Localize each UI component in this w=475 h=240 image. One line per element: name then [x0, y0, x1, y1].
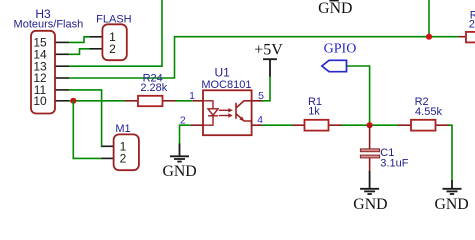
optocoupler U1 box [203, 90, 252, 135]
svg-text:5: 5 [258, 90, 264, 102]
wire: H3 pin13 up to top edge [69, 0, 163, 66]
U1 internal phototransistor [236, 101, 252, 125]
wire: H3 pin15 to FLASH pin1 [69, 37, 90, 43]
resistor R3 pin (partial at right edge) [459, 36, 467, 38]
capacitor C1 pin bottom [369, 158, 371, 172]
resistor R3 (partial) [466, 32, 475, 43]
svg-text:1: 1 [189, 90, 195, 102]
wire: H3 pin12 up and across to R3 [69, 37, 459, 78]
capacitor C1 pin top [369, 125, 371, 149]
svg-text:MOC8101: MOC8101 [201, 79, 251, 91]
op-to pins U1 stubs [191, 101, 262, 125]
svg-text:2.2: 2.2 [469, 19, 475, 31]
ground symbol under U1 pin2 [170, 144, 189, 162]
wire: U1 pin4 to R1 [262, 124, 292, 126]
wire: GPIO flag to junction vertical [347, 66, 370, 125]
junction: long net / vertical [426, 34, 432, 40]
svg-text:GND: GND [353, 196, 387, 213]
capacitor C1 plates [360, 149, 379, 152]
wire: R2 to right GND drop [448, 125, 452, 181]
svg-text:2: 2 [109, 42, 116, 56]
resistor R2 [411, 120, 436, 131]
connector FLASH pin stubs [90, 37, 103, 49]
svg-text:+5V: +5V [254, 41, 283, 58]
svg-text:M1: M1 [115, 123, 130, 135]
wire: junction to R2 [370, 124, 399, 126]
resistor R1 pins [292, 124, 342, 126]
svg-text:4: 4 [257, 114, 263, 126]
wire: U1 pin2 to GND [180, 125, 191, 144]
svg-text:2: 2 [120, 152, 127, 166]
svg-text:FLASH: FLASH [96, 14, 132, 26]
U1 internal coupling arrows [219, 108, 233, 118]
ground symbol under C1 [360, 171, 379, 194]
resistor R24 pins [125, 100, 176, 102]
svg-text:2: 2 [180, 114, 186, 126]
svg-text:4.55k: 4.55k [415, 106, 442, 118]
ground symbol under R2 [443, 180, 462, 194]
wire: H3 pin10 to R24 [69, 100, 126, 102]
wire: pin10 branch down to M1 pin2 [73, 101, 102, 159]
resistor R1 [305, 120, 329, 131]
junction: R1/R2/C1/GPIO node [367, 122, 373, 128]
power +5V symbol [263, 59, 277, 76]
svg-text:GND: GND [318, 0, 352, 17]
svg-text:U1: U1 [215, 65, 231, 79]
connector M1 pin stubs [102, 146, 114, 158]
svg-text:Moteurs/Flash: Moteurs/Flash [14, 19, 84, 31]
resistor R24 [138, 96, 163, 106]
wire: R24 to U1 pin1 [175, 100, 193, 102]
wire: vertical drop from top edge to junction on long net [428, 0, 430, 37]
svg-text:2.28k: 2.28k [140, 82, 167, 94]
connector FLASH [102, 24, 126, 60]
svg-text:10: 10 [33, 94, 47, 108]
connector M1 [114, 134, 139, 170]
ground symbol top (inverted, cut off) [329, 0, 339, 1]
connector H3 [31, 31, 55, 114]
resistor R2 pins [398, 124, 449, 126]
svg-text:GND: GND [434, 196, 468, 213]
wire: U1 pin5 to +5V [258, 76, 270, 101]
connector H3 pin stubs [55, 42, 69, 100]
svg-text:GND: GND [162, 163, 196, 180]
U1 internal LED [203, 101, 218, 125]
net label GPIO flag [322, 60, 347, 71]
svg-text:3.1uF: 3.1uF [380, 157, 408, 169]
svg-text:GPIO: GPIO [324, 42, 357, 57]
wire: H3 pin14 to FLASH pin2 [69, 49, 90, 55]
wire: R1 to junction [341, 124, 370, 126]
wire: H3 pin11 to M1 pin1 [69, 90, 103, 146]
svg-text:1k: 1k [308, 106, 320, 118]
junction: H3 pin10 branch [70, 98, 76, 104]
